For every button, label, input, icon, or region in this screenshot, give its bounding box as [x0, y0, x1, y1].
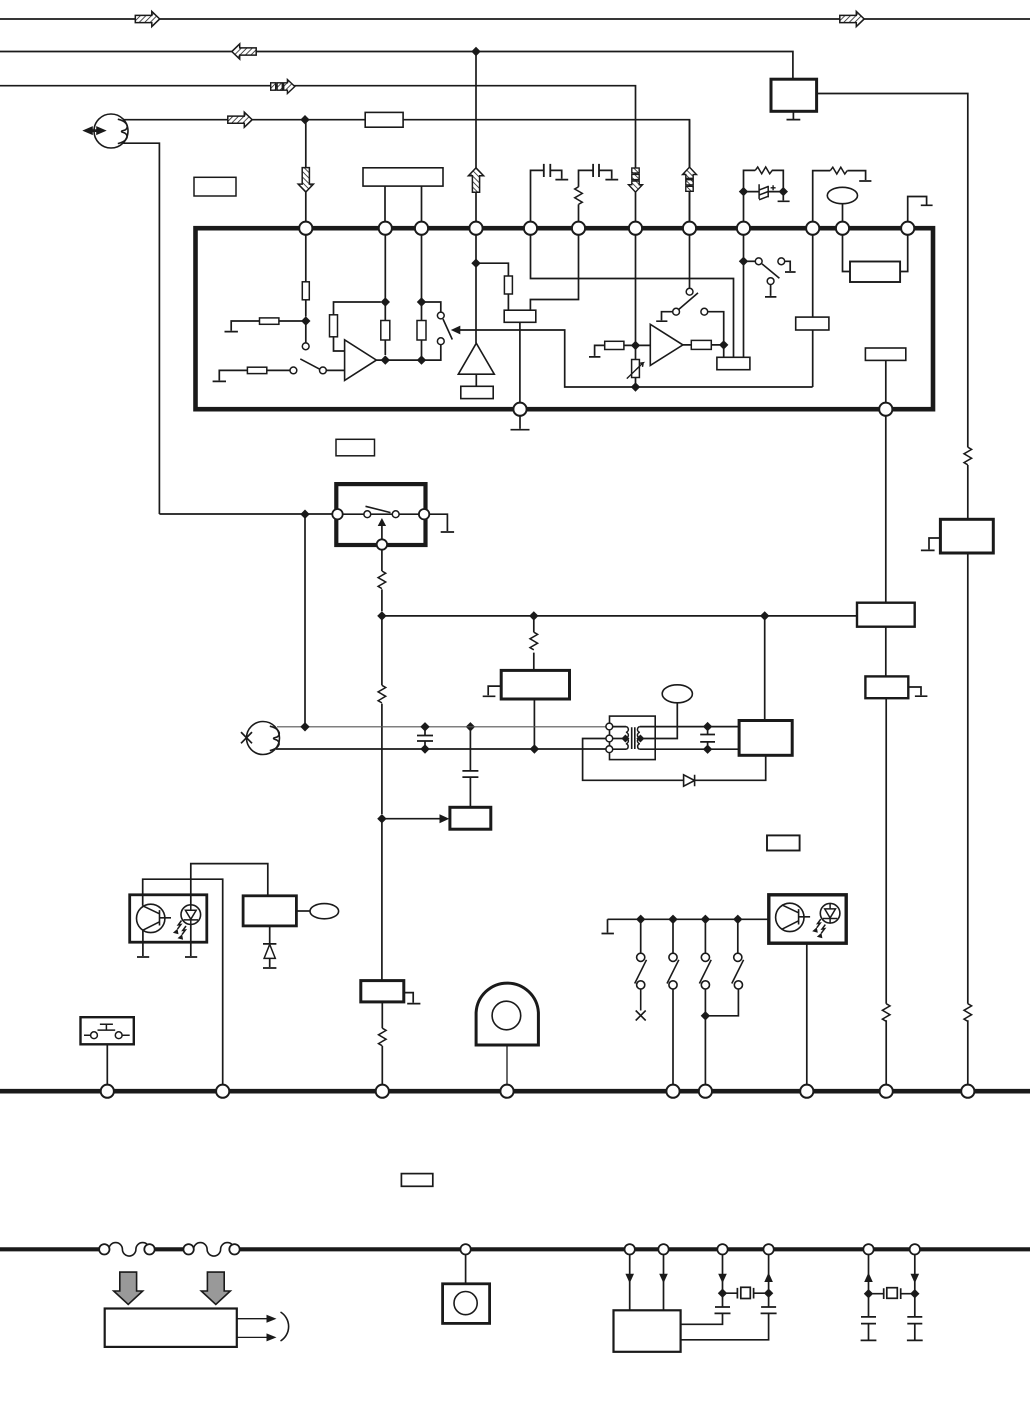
block B18 with circle — [465, 1255, 467, 1284]
buffer triangle A2 — [458, 343, 494, 374]
wire pin476 top — [475, 52, 477, 222]
pin476 node — [475, 235, 477, 343]
pushbutton SW2 — [81, 1017, 134, 1044]
switch row feed wire with ground — [602, 919, 769, 933]
switch SW4 — [672, 919, 674, 953]
output node wire — [376, 345, 440, 360]
B14 right ground — [908, 687, 927, 696]
pin 743 RC network — [744, 170, 790, 221]
IC U1 body — [196, 228, 934, 409]
wire jack branch to switch SW1 — [159, 513, 332, 515]
lamp cross mark — [241, 732, 252, 743]
jack direction arrow — [82, 126, 106, 135]
B15 down to bus resistor — [967, 553, 969, 1085]
reference resistor — [476, 263, 508, 310]
zener D2 under B16 — [263, 926, 276, 968]
SW1 right to ground — [429, 514, 454, 532]
wire line 2 — [0, 52, 793, 80]
switch SW5 — [704, 919, 706, 953]
signal arrow A2 on line 1 — [840, 11, 864, 26]
mute switch above A3 — [689, 235, 691, 288]
arrow up on pin476 wire — [468, 168, 483, 192]
cap from lamp line to B9 — [469, 727, 471, 808]
label box L4 — [401, 1174, 432, 1187]
variable resistor VR1 — [632, 360, 640, 378]
resistor from node to B11 — [533, 616, 535, 671]
block B9 — [450, 807, 491, 829]
B11 left ground — [483, 686, 502, 696]
pin385 gain resistor — [384, 235, 386, 355]
U2 LED leads — [185, 864, 268, 957]
inductor terminal circles — [99, 1244, 109, 1254]
bias resistor to ground node321 — [225, 321, 306, 332]
block B14 — [865, 676, 908, 698]
wire pin306 top — [305, 120, 307, 222]
crystal X1 network — [723, 1255, 769, 1293]
block B10 — [361, 981, 404, 1002]
pin 813 resistor to ground — [813, 171, 872, 222]
IC top pins — [299, 222, 312, 235]
pin422 gain resistor — [421, 235, 423, 360]
T1 secondary winding — [637, 727, 639, 750]
pins 842/908 block B7 — [843, 235, 908, 272]
block B4 under A2 — [475, 374, 477, 386]
branch wire down to lamp line — [304, 514, 306, 727]
T1 left terminals — [606, 723, 613, 730]
regulator box B1 top right — [771, 79, 817, 111]
junction node321 — [301, 316, 310, 325]
block B5 — [717, 357, 750, 369]
motor M1 — [476, 983, 538, 1045]
bus node circles — [101, 1085, 114, 1098]
input resistor of A3 — [589, 345, 650, 357]
pin813 block B6 — [812, 235, 814, 387]
T1 secondary tap to ellipse E2 — [640, 703, 678, 739]
legs of B2 — [385, 186, 422, 221]
U3 light arrows — [817, 919, 826, 933]
wire SW1 bottom resistor — [381, 550, 383, 612]
gain select switch S2 — [422, 302, 441, 312]
input resistor to ground — [213, 370, 290, 381]
B10 to bus resistor — [381, 1002, 383, 1085]
ellipse E2 — [662, 685, 692, 703]
B17 output arrows — [237, 1319, 268, 1338]
block box on line 4 — [365, 112, 403, 127]
lamp LP1 — [247, 722, 280, 755]
block B11 — [501, 670, 569, 699]
pin 530 RC to ground — [531, 170, 569, 221]
block B17 — [105, 1309, 237, 1347]
wire bus line 1 — [0, 18, 1030, 20]
wire jack lower lead — [123, 143, 159, 514]
inductor L6 on bus — [194, 1243, 235, 1257]
junction line4/pin306 — [300, 115, 309, 124]
IC bottom pin520 ground — [511, 416, 530, 430]
switch SW6 — [737, 919, 739, 953]
wire B1 to right rail — [817, 94, 968, 448]
ground of B1 — [787, 111, 801, 119]
block B8 to bottom pin — [865, 348, 905, 360]
label box L2 — [336, 439, 375, 456]
wire B3 to bottom pin — [519, 322, 521, 402]
B14 down to bus resistor — [885, 698, 887, 1085]
T1 primary tap — [613, 738, 626, 740]
junctions on feed wire — [636, 915, 645, 924]
B10 right ground — [404, 993, 421, 1004]
wire node y616 to B13 handled above — [885, 627, 887, 677]
arrow down into pin 306 — [298, 168, 313, 192]
IC bottom pin a — [513, 403, 526, 416]
block B19 — [614, 1310, 681, 1352]
diode D1 — [684, 775, 695, 786]
cap across secondary — [707, 727, 709, 750]
junction and arrow into box B9 — [377, 814, 386, 823]
T1 core — [632, 727, 635, 749]
output resistor of A3 — [683, 345, 724, 357]
SW1 contacts and blade — [343, 513, 419, 515]
switch S1 contacts — [290, 367, 297, 374]
wire B9 down to B10 — [381, 819, 383, 981]
pin578 wire to B3 — [530, 235, 578, 310]
resistor below node to second stage — [381, 616, 383, 814]
label box L1 — [194, 177, 236, 196]
block B13 on right rail — [885, 416, 887, 603]
IC bottom pin b — [879, 403, 892, 416]
main ground bus — [0, 1089, 1030, 1094]
junction pin743 right — [779, 187, 788, 196]
emission arrow G1 — [114, 1272, 143, 1304]
signal arrow A3 on line 2 (left) — [232, 44, 256, 59]
electrolytic cap symbol — [759, 184, 768, 200]
indicator ellipse E3 — [296, 910, 310, 912]
junction at (305,514) — [300, 510, 309, 519]
T1 secondary out wires — [640, 727, 739, 750]
crystal X2 network — [869, 1255, 915, 1294]
block B12 — [739, 721, 792, 756]
feedback resistor of A1 — [334, 302, 381, 351]
pin530 wire to B5 — [531, 235, 734, 357]
signal arrow A5 on line 4 — [228, 112, 252, 127]
switch contact upper — [305, 321, 307, 343]
switch SW3 — [640, 919, 642, 953]
power bus line 2 — [0, 1247, 104, 1251]
wire line 4 right part — [403, 120, 689, 222]
block B15 — [940, 519, 993, 553]
wire to opamp A1 — [327, 369, 345, 371]
inductor L5 on bus — [109, 1243, 149, 1257]
pin635 node wire — [635, 235, 637, 387]
wire line 4 — [123, 119, 365, 121]
op-amp A3 — [650, 324, 683, 365]
label box L3 — [767, 835, 800, 850]
clock lines into B19 — [630, 1255, 664, 1311]
block B3 — [504, 310, 536, 322]
optocoupler U3 box — [769, 895, 846, 943]
signal arrow A4 on line 3 (dashed) — [271, 80, 295, 94]
block box B2 above IC — [363, 168, 443, 186]
wire node to B12 top — [764, 616, 766, 721]
node wire y=616 — [382, 615, 857, 617]
transformer T1 box — [610, 716, 656, 760]
X2 ground caps — [861, 1294, 877, 1341]
pin 578 resistor + cap to ground — [579, 170, 619, 221]
wire pin 635 top with dashed down arrow — [629, 168, 643, 192]
pin 908 step ground — [908, 197, 933, 222]
op-amp A1 — [345, 340, 377, 381]
bus2 node circles — [625, 1244, 635, 1254]
cap across lamp wires — [424, 727, 426, 749]
IC interior: pin306 resistor — [305, 235, 307, 317]
lamp top wire — [277, 726, 606, 728]
relay box B16 — [243, 896, 296, 926]
U2 phototransistor — [137, 904, 165, 932]
junction on line 2 at x=476 — [471, 47, 480, 56]
SW1 actuator arrow — [377, 539, 387, 549]
pin743 node and selector switch — [743, 235, 745, 357]
U2 transistor leads — [137, 879, 223, 1085]
U3 output lead to bus — [806, 943, 808, 1085]
wire pin 689 top with dashed up arrow — [689, 120, 691, 222]
B15 left ground — [921, 538, 941, 550]
signal arrow A1 on line 1 — [135, 11, 159, 26]
headphone jack J1 — [94, 114, 128, 148]
X1 load caps to B19 — [681, 1293, 723, 1324]
lamp bottom wire — [276, 748, 606, 750]
crystal ellipse E1 — [827, 187, 857, 203]
control arrow into S2 — [460, 330, 813, 387]
switch S1 blade — [300, 359, 319, 369]
detector switch SW1 box — [336, 484, 425, 545]
U2 light arrows — [178, 921, 186, 935]
right rail resistor upper — [964, 447, 972, 465]
SW2 to bus — [106, 1044, 108, 1085]
emission arrow G2 — [201, 1272, 230, 1304]
U2 LED — [181, 905, 201, 925]
wire line 3 — [0, 86, 636, 222]
junction pin743 left — [739, 187, 748, 196]
sound wave arc — [281, 1312, 289, 1341]
U3 phototransistor — [776, 903, 804, 931]
T1 primary winding — [613, 727, 626, 750]
U3 LED — [820, 903, 840, 923]
B11 bottom to lamp return wire — [533, 699, 535, 749]
optocoupler U2 box — [130, 895, 207, 942]
primary tap loop with diode D1 — [583, 739, 766, 781]
